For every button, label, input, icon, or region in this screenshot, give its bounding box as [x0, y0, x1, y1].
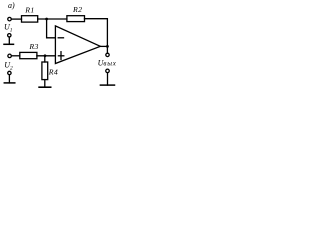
node output junction: [106, 45, 109, 48]
resistor R4: [42, 62, 48, 80]
ground bar under R4: [39, 86, 51, 88]
svg-text:а): а): [8, 1, 15, 10]
op-amp triangle: [55, 26, 100, 64]
bar output minus: [100, 84, 114, 86]
svg-text:U2: U2: [4, 61, 13, 72]
minus sign: [58, 37, 63, 39]
svg-text:R1: R1: [24, 6, 34, 15]
wire junction to R4: [44, 56, 46, 62]
wire U1 to R1: [11, 18, 21, 20]
terminal U1 minus: [8, 34, 11, 37]
resistor R1: [22, 16, 38, 22]
plus sign: [58, 55, 63, 57]
svg-text:U1: U1: [4, 23, 13, 34]
wire R3 to noninverting input: [37, 55, 56, 57]
wire R1 to R2: [38, 18, 67, 20]
resistor R2: [67, 16, 85, 22]
terminal output plus: [106, 53, 109, 56]
svg-text:R2: R2: [72, 5, 82, 14]
node summing junction: [45, 18, 48, 21]
bar U1 minus: [4, 43, 14, 45]
wire R4 to ground bar: [44, 80, 46, 88]
svg-text:R3: R3: [28, 42, 38, 51]
terminal U2 minus: [8, 71, 11, 74]
bar U2 minus: [4, 82, 15, 84]
terminal U1 plus: [8, 17, 12, 21]
stem U2 minus: [8, 75, 10, 83]
stem output minus: [107, 73, 109, 85]
stem U1 minus: [8, 37, 10, 44]
wire R2 to output node: [85, 19, 108, 54]
terminal output minus: [106, 69, 110, 73]
wire junction to inverting input: [47, 19, 56, 38]
svg-text:Uвых: Uвых: [98, 58, 117, 67]
terminal U2 plus: [8, 54, 12, 58]
node R4 junction: [44, 54, 47, 57]
resistor R3: [20, 52, 37, 58]
wire op-amp output: [100, 45, 107, 47]
wire U2 to R3: [11, 55, 19, 57]
svg-text:R4: R4: [48, 68, 58, 77]
